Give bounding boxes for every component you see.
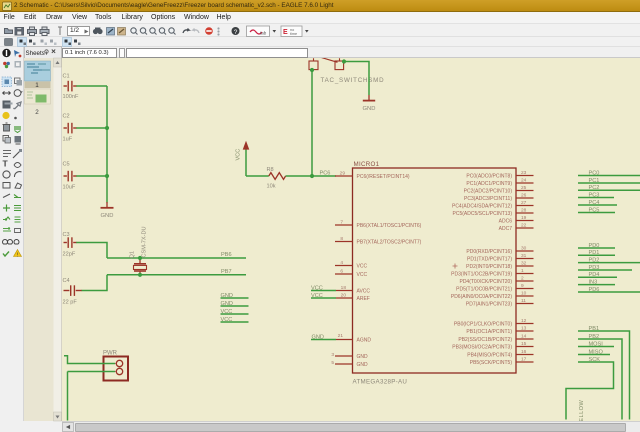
wire PD1 [578,250,615,256]
svg-text:PD3(INT1/OC2B/PCINT19): PD3(INT1/OC2B/PCINT19) [451,271,512,277]
svg-text:PC3: PC3 [589,192,600,198]
wire [106,86,108,203]
svg-text:GND: GND [221,301,233,307]
wire [76,85,107,87]
wire PC3 [578,192,614,198]
svg-text:MICRO1: MICRO1 [354,161,380,168]
svg-text:PD7(AIN1/PCINT23): PD7(AIN1/PCINT23) [466,301,512,307]
wire [76,243,107,259]
wire SCK [566,357,614,420]
svg-text:PD0: PD0 [589,243,600,249]
svg-text:24: 24 [521,178,527,184]
pin GND (5) [331,360,352,366]
wire PC4 [578,200,617,206]
wire PD4 [578,272,617,278]
svg-text:PC5(ADC5/SCL/PCINT13): PC5(ADC5/SCL/PCINT13) [453,211,513,217]
svg-text:PB1: PB1 [589,326,600,332]
wire VCC to AVCC [311,285,336,291]
pin PC6 (29) [335,170,353,176]
svg-text:SCK: SCK [589,357,601,363]
svg-text:32: 32 [521,261,527,267]
svg-text:6: 6 [340,268,343,274]
node GND stub [221,293,249,299]
svg-text:C2: C2 [63,114,70,120]
svg-text:GND: GND [221,293,233,299]
svg-text:19: 19 [521,215,527,221]
wire PC6 [312,175,336,177]
wire PD6 [578,287,640,293]
junction [138,256,142,260]
wire PC0 [578,170,640,176]
svg-text:VCC: VCC [236,149,242,161]
svg-text:PD4: PD4 [589,272,600,278]
svg-text:PC1: PC1 [589,178,600,184]
resistor R8 [267,167,286,189]
title bar app icon [3,2,12,11]
svg-text:100nF: 100nF [63,94,79,100]
junction [105,126,109,130]
svg-text:C1: C1 [63,74,70,80]
wire MOSI [578,341,614,347]
svg-text:PB7(XTAL2/TOSC2/PCINT7): PB7(XTAL2/TOSC2/PCINT7) [357,239,422,245]
svg-text:VCC: VCC [221,317,233,323]
svg-text:PD6: PD6 [589,287,600,293]
svg-text:1: 1 [521,268,524,274]
svg-text:PB0(ICP1/CLKO/PCINT0): PB0(ICP1/CLKO/PCINT0) [454,321,512,327]
svg-text:18: 18 [341,285,347,291]
svg-text:26: 26 [521,193,527,199]
supply VCC arrow [236,141,250,176]
svg-text:23: 23 [521,170,527,176]
svg-text:PD2(INT0/PCINT18): PD2(INT0/PCINT18) [466,264,512,270]
svg-text:VCC: VCC [221,309,233,315]
svg-text:GND: GND [357,362,369,368]
svg-text:10: 10 [521,291,527,297]
svg-text:T: T [3,159,9,169]
svg-text:PWR: PWR [103,351,118,357]
svg-text:22pF: 22pF [63,251,76,257]
svg-text:22: 22 [521,223,527,229]
svg-text:CSM-7X-DU: CSM-7X-DU [142,226,148,257]
panel scrollbar [54,58,62,421]
wire [67,372,69,421]
switch S1 TAC_SWITCH-SMD [309,56,384,84]
capacitor C2 [64,123,77,134]
sheets panel thumbnails [25,58,62,421]
svg-text:21: 21 [338,333,344,339]
svg-text:5: 5 [331,360,334,366]
svg-text:PC0: PC0 [589,170,600,176]
junction [138,273,142,277]
IC right pins group C [516,324,534,363]
wire PD0 [578,243,615,249]
svg-text:11: 11 [521,298,526,304]
wire PB1 [578,326,630,420]
svg-text:28: 28 [521,208,527,214]
IC left pin names [357,174,422,368]
pin GND (3) [331,352,352,358]
pin AREF (20) [336,292,353,298]
board/cam buttons [247,26,277,37]
IC right pins group B [516,251,534,304]
svg-text:C3: C3 [63,232,70,238]
svg-text:PD1: PD1 [589,250,600,256]
svg-text:7: 7 [340,219,343,225]
binoculars [93,28,103,35]
wire to PWR pin1 [64,356,115,364]
junction [105,174,109,178]
svg-text:PD1(TXD/PCINT17): PD1(TXD/PCINT17) [467,256,512,262]
part origin cross [453,264,458,269]
svg-text:VCC: VCC [311,285,323,291]
svg-text:ADC6: ADC6 [499,218,513,224]
wire to PWR pin2 [68,371,116,373]
svg-text:PC4: PC4 [589,200,600,206]
op IC MICRO1 ATMEGA328P-AU box [353,161,517,386]
svg-text:GND: GND [363,106,376,112]
svg-text:1uF: 1uF [63,137,73,143]
svg-text:PD6(AIN0/OC0A/PCINT22): PD6(AIN0/OC0A/PCINT22) [451,294,512,300]
capacitor C3 [64,237,77,248]
five magnifier icons [131,28,176,35]
svg-text:PC5: PC5 [589,207,600,213]
svg-text:tab: tab [260,31,267,36]
wire PB2 [578,334,622,420]
svg-text:ATMEGA328P-AU: ATMEGA328P-AU [353,379,408,386]
svg-text:?: ? [234,29,238,36]
crystal Q1 [130,226,148,274]
svg-text:PC3(ADC3/PCINT11): PC3(ADC3/PCINT11) [464,196,512,202]
svg-text:PB1(OC1A/PCINT1): PB1(OC1A/PCINT1) [466,329,512,335]
ground [101,202,114,219]
svg-text:MISO: MISO [589,349,604,355]
svg-text:AREF: AREF [357,296,370,302]
svg-text:PD5(T1/OC0B/PCINT21): PD5(T1/OC0B/PCINT21) [456,286,512,292]
svg-text:PB4(MISO/PCINT4): PB4(MISO/PCINT4) [467,352,512,358]
node GND stub [221,301,249,307]
svg-text:PC2: PC2 [589,185,600,191]
svg-text:PB2: PB2 [589,334,600,340]
wire PB7 [107,274,246,276]
capacitor C4 [64,285,83,296]
wire PD2 [578,257,640,263]
svg-text:1: 1 [35,82,39,89]
wire PC2 [578,185,640,191]
svg-text:3: 3 [331,352,334,358]
svg-text:GND: GND [312,334,324,340]
svg-text:4: 4 [340,260,343,266]
svg-text:C5: C5 [63,162,70,168]
svg-text:PC4(ADC4/SDA/PCINT12): PC4(ADC4/SDA/PCINT12) [452,203,512,209]
pin AGND (21) [336,333,353,340]
svg-text:14: 14 [521,334,527,340]
svg-text:AVCC: AVCC [357,288,371,294]
IC right pin names [451,173,512,366]
wire [82,275,107,291]
svg-text:13: 13 [521,326,527,332]
svg-text:VCC: VCC [357,263,368,269]
svg-text:PC6: PC6 [320,171,331,177]
svg-text:PC6(/RESET/PCINT14): PC6(/RESET/PCINT14) [357,174,410,180]
svg-text:PC1(ADC1/PCINT9): PC1(ADC1/PCINT9) [466,181,512,187]
svg-text:ADC7: ADC7 [499,226,513,232]
junction [310,174,314,178]
pin AVCC (18) [336,285,353,291]
pin VCC (4) [335,260,353,266]
svg-text:VCC: VCC [311,293,323,299]
svg-text:PB6: PB6 [221,252,232,258]
svg-text:PC0(ADC0/PCINT8): PC0(ADC0/PCINT8) [466,173,512,179]
ground [363,95,376,112]
capacitor C1 [64,81,77,92]
svg-text:PB6(XTAL1/TOSC1/PCINT6): PB6(XTAL1/TOSC1/PCINT6) [357,223,422,229]
sheets tab content [26,50,56,58]
toolbar row2 icons [4,38,81,47]
svg-text:15: 15 [521,341,527,347]
wire PC5 [578,207,615,213]
IC right pins group A [516,176,534,229]
svg-text:PC2(ADC2/PCINT10): PC2(ADC2/PCINT10) [464,188,513,194]
svg-text:PD4(T0/XCK/PCINT20): PD4(T0/XCK/PCINT20) [459,279,512,285]
wire PC1 [578,178,640,184]
svg-text:GND: GND [357,354,369,360]
wire [344,62,369,96]
svg-text:10uF: 10uF [63,185,76,191]
pin PB6 (7) [335,219,353,225]
junction [342,59,346,63]
svg-text:C4: C4 [63,278,70,284]
svg-text:PB5(SCK/PCINT5): PB5(SCK/PCINT5) [470,360,513,366]
wire [76,127,107,129]
wire PD3 [578,265,632,271]
svg-text:9: 9 [521,283,524,289]
svg-text:17: 17 [521,357,527,363]
wire PB6 [107,257,246,259]
svg-text:Sheets: Sheets [26,50,45,57]
left toolbar icons [2,49,22,259]
svg-text:PB2(SS/OC1B/PCINT2): PB2(SS/OC1B/PCINT2) [458,337,512,343]
pin VCC (6) [335,268,353,274]
svg-text:31: 31 [521,253,527,259]
svg-text:10k: 10k [267,183,276,189]
svg-text:VCC: VCC [357,272,368,278]
node VCC stub [221,317,249,323]
svg-text:PB7: PB7 [221,269,232,275]
svg-text:25: 25 [521,185,527,191]
wire VCC to AREF [311,293,336,299]
svg-text:PB3(MOSI/OC2A/PCINT3): PB3(MOSI/OC2A/PCINT3) [452,344,512,350]
svg-text:2: 2 [35,109,39,116]
svg-text:30: 30 [521,246,527,252]
svg-text:29: 29 [340,170,346,176]
svg-text:27: 27 [521,200,527,206]
svg-text:Q1: Q1 [130,251,136,258]
svg-text:IN3: IN3 [589,279,598,285]
svg-text:YELLOW: YELLOW [579,399,585,421]
svg-text:8: 8 [340,236,343,242]
pin PB7 (8) [335,236,353,242]
wire [286,175,312,177]
svg-text:PD3: PD3 [589,265,600,271]
svg-text:2: 2 [521,276,524,282]
junction [310,68,314,72]
wire IN3 [578,279,615,285]
svg-text:20: 20 [341,292,347,298]
svg-text:E: E [283,29,288,36]
wire MISO [578,349,610,355]
svg-text:MOSI: MOSI [589,341,604,347]
svg-text:22 pF: 22 pF [63,299,78,305]
svg-text:PD0(RXD/PCINT16): PD0(RXD/PCINT16) [466,249,512,255]
svg-text:16: 16 [521,349,527,355]
toolbar row1 icons [5,27,63,36]
connector PWR [103,351,128,381]
wire [246,175,269,177]
svg-text:GND: GND [101,213,114,219]
node VCC stub [221,309,249,315]
capacitor C5 [64,171,77,182]
svg-text:AGND: AGND [357,337,372,343]
svg-text:TAC_SWITCHSMD: TAC_SWITCHSMD [321,77,385,84]
wire [76,175,107,177]
svg-text:time: time [290,32,297,36]
svg-text:PD2: PD2 [589,257,600,263]
wire GND to AGND [311,334,336,340]
svg-text:12: 12 [521,318,527,324]
svg-text:R8: R8 [267,167,274,173]
wire [311,70,313,176]
